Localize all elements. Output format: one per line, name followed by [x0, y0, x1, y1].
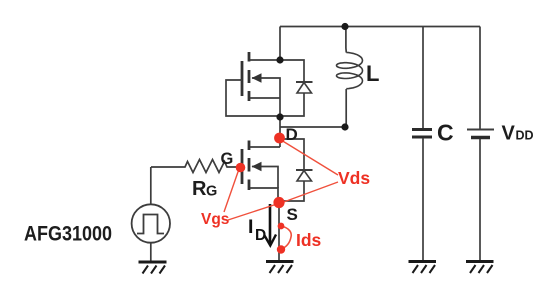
node Ids arc bottom red dot: [277, 245, 285, 253]
svg-text:S: S: [287, 205, 298, 224]
wire VDD branch top: [479, 27, 481, 130]
svg-text:Vds: Vds: [338, 168, 370, 188]
capacitor C: [412, 130, 432, 138]
diode D2 (body diode of Q2): [281, 139, 304, 170]
svg-text:L: L: [366, 61, 379, 86]
diode D1 (body diode of Q1): [280, 60, 304, 82]
node junction dot (Q1 source / mid node): [276, 113, 283, 120]
svg-text:D: D: [286, 125, 298, 144]
pulse source V1 (AFG31000): [132, 204, 170, 242]
node S red dot: [273, 197, 284, 208]
svg-text:G: G: [206, 184, 217, 200]
node G red dot: [236, 163, 246, 173]
svg-text:DD: DD: [516, 129, 534, 143]
battery VDD: [467, 129, 494, 131]
arrow ID (drain current): [265, 204, 277, 246]
wire top rail: [280, 26, 480, 28]
wire L top: [345, 27, 347, 53]
svg-text:AFG31000: AFG31000: [24, 223, 112, 246]
wire L bottom: [345, 89, 346, 127]
annotation line Vgs to S: [228, 204, 277, 220]
annotation line Vds to S: [281, 182, 338, 203]
node junction dot (rail / L top): [341, 23, 348, 30]
svg-text:D: D: [255, 227, 266, 244]
node Ids arc top red dot: [278, 223, 285, 230]
ground (VDD): [466, 262, 494, 274]
wire source top to resistor: [150, 167, 152, 204]
svg-text:G: G: [221, 150, 234, 168]
ground (source S): [266, 262, 294, 274]
node junction dot (Q1 drain): [276, 56, 283, 63]
ground (pulse source): [139, 262, 167, 274]
ground (capacitor C): [409, 262, 437, 274]
annotation line Vds to D: [224, 140, 338, 249]
wire S node to ground: [278, 203, 280, 260]
wire C branch top: [422, 27, 424, 129]
annotation line Vgs to G: [224, 169, 239, 212]
svg-text:Vgs: Vgs: [201, 211, 229, 228]
annotation arc Ids (current probe loop): [281, 226, 291, 249]
resistor RG: [151, 160, 240, 173]
inductor L: [337, 53, 363, 89]
wire rail drop to Q1 drain: [279, 27, 281, 61]
wire Q1 gate tie to source node: [226, 80, 280, 116]
transistor Q1 (high-side MOSFET, gate tied to source): [242, 52, 249, 101]
svg-text:C: C: [437, 120, 454, 146]
wire mid node down to D: [279, 117, 281, 147]
node junction dot (L bottom): [341, 123, 348, 130]
svg-text:Ids: Ids: [296, 230, 322, 250]
node D red dot: [274, 133, 285, 144]
transistor Q2 (low-side MOSFET under test): [242, 141, 249, 191]
wire node D to L: [280, 126, 345, 128]
wire C branch bottom: [422, 138, 424, 260]
svg-text:I: I: [248, 216, 253, 238]
wire source bottom to ground: [150, 243, 152, 261]
svg-text:V: V: [502, 123, 516, 145]
wire VDD branch bottom: [479, 139, 481, 260]
svg-text:R: R: [192, 178, 207, 200]
